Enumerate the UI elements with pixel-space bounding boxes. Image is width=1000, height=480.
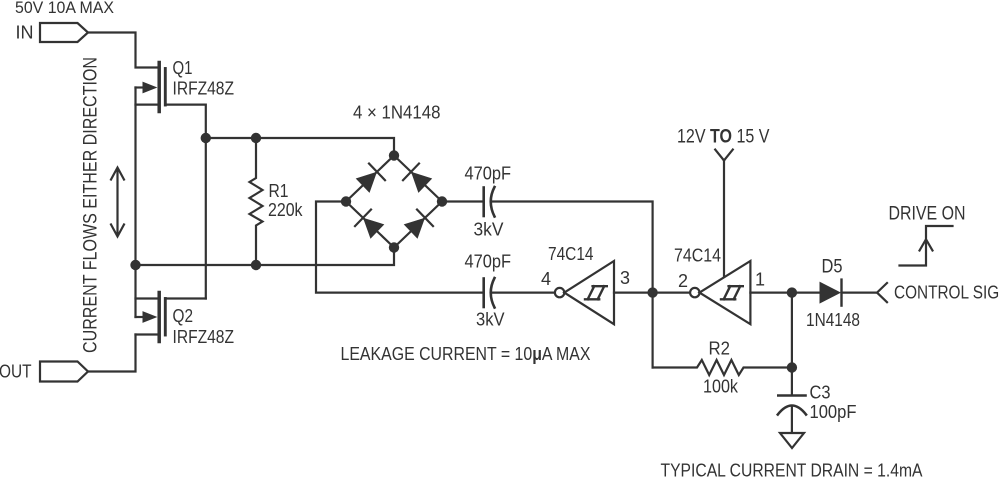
svg-text:74C14: 74C14: [548, 244, 594, 264]
svg-text:OUT: OUT: [0, 362, 32, 382]
diode D5: [820, 280, 842, 306]
wire node A down to R2 left: [651, 293, 653, 368]
wire bridge right to upper capacitor: [442, 200, 483, 202]
svg-text:IRFZ48Z: IRFZ48Z: [173, 79, 235, 99]
node A junction: [647, 287, 657, 297]
svg-text:4 × 1N4148: 4 × 1N4148: [353, 103, 441, 123]
wire IN to Q1 drain: [88, 33, 158, 68]
wire Q1 source/body down to source row: [134, 88, 136, 266]
node bridge right: [437, 196, 447, 206]
svg-text:1N4148: 1N4148: [806, 310, 860, 330]
svg-text:4: 4: [541, 269, 551, 289]
node R2 right / C3 top: [787, 362, 797, 372]
node bridge bottom: [389, 242, 399, 252]
bidirectional arrow: [111, 168, 124, 237]
svg-text:DRIVE ON: DRIVE ON: [889, 203, 966, 225]
svg-text:IRFZ48Z: IRFZ48Z: [173, 327, 235, 347]
svg-text:3kV: 3kV: [476, 310, 505, 330]
op-amp U1B inverter 74C14 (pins 2,1): [690, 261, 750, 324]
diode bridge top-left (anode left, cathode top): [356, 164, 385, 193]
output flag OUT: [40, 362, 88, 382]
wire Q1 gate to gate row and down to Q2 gate: [166, 105, 206, 299]
transistor Q1: [136, 63, 166, 112]
svg-text:100k: 100k: [703, 377, 739, 397]
op-amp U1A inverter 74C14 (pins 4,3): [555, 261, 614, 324]
node R1 bottom: [251, 260, 261, 270]
svg-text:74C14: 74C14: [674, 246, 721, 266]
control input chevron: [877, 283, 887, 302]
svg-text:IN: IN: [16, 23, 34, 43]
svg-text:Q2: Q2: [173, 306, 194, 326]
wire source row to bridge bottom: [136, 248, 395, 266]
svg-text:470pF: 470pF: [465, 164, 512, 184]
wire U1A output to U1B input: [614, 292, 690, 294]
wire D5 node down to R2/C3 node: [791, 293, 793, 368]
node Q1 gate / gate row junction: [201, 133, 211, 143]
node R1 top: [251, 133, 261, 143]
node source row left: [130, 260, 140, 270]
wire D5 to control input: [842, 292, 878, 294]
wire bridge left to lower capacitor: [316, 202, 483, 293]
svg-text:470pF: 470pF: [465, 252, 512, 272]
svg-text:LEAKAGE CURRENT = 10μA MAX: LEAKAGE CURRENT = 10μA MAX: [341, 344, 591, 364]
diode bridge top-right (anode right, cathode top): [403, 164, 432, 193]
input flag IN: [40, 23, 88, 42]
wire gate row to bridge top: [206, 138, 394, 156]
svg-text:3kV: 3kV: [474, 220, 504, 240]
resistor R2: [653, 360, 792, 375]
wire lower capacitor to U1A input bubble: [491, 292, 555, 294]
svg-text:Q1: Q1: [173, 58, 193, 78]
capacitor C3: [778, 368, 806, 433]
svg-text:3: 3: [620, 268, 630, 288]
drive-on step waveform: [900, 226, 953, 266]
svg-text:CURRENT FLOWS EITHER DIRECTION: CURRENT FLOWS EITHER DIRECTION: [81, 57, 102, 353]
diode bridge edges: [346, 156, 442, 248]
diode bridge bottom-left (anode bottom, cathode left): [355, 210, 384, 239]
power 12V to 15V: [715, 150, 733, 278]
svg-text:R2: R2: [709, 339, 731, 359]
svg-text:50V 10A MAX: 50V 10A MAX: [15, 0, 114, 17]
wire Q2 source/body up to source row: [134, 265, 136, 317]
wire Q2 gate stub: [166, 297, 206, 299]
svg-text:1: 1: [755, 270, 765, 290]
node D5/R2/C3 junction: [787, 287, 797, 297]
diode bridge bottom-right (anode bottom, cathode right): [404, 210, 433, 239]
node bridge left: [341, 196, 351, 206]
svg-text:TYPICAL CURRENT DRAIN = 1.4mA: TYPICAL CURRENT DRAIN = 1.4mA: [661, 461, 923, 480]
transistor Q2: [136, 293, 166, 342]
svg-text:220k: 220k: [268, 200, 303, 220]
ground: [780, 433, 804, 448]
wire upper capacitor to node A (feedback): [491, 202, 653, 293]
capacitor 470pF lower: [484, 278, 495, 308]
svg-text:CONTROL SIGNAL: CONTROL SIGNAL: [894, 283, 1000, 303]
svg-text:12V TO 15 V: 12V TO 15 V: [677, 126, 770, 148]
svg-text:100pF: 100pF: [810, 402, 857, 422]
node bridge top: [389, 150, 399, 160]
wire U1B input (pin1 side) to D5: [750, 292, 819, 294]
capacitor 470pF upper: [484, 187, 495, 217]
resistor R1: [250, 138, 263, 265]
svg-text:R1: R1: [269, 181, 289, 201]
svg-text:D5: D5: [822, 257, 843, 278]
wire Q2 drain to OUT: [88, 335, 136, 372]
svg-text:C3: C3: [810, 383, 831, 403]
svg-text:2: 2: [678, 271, 688, 291]
